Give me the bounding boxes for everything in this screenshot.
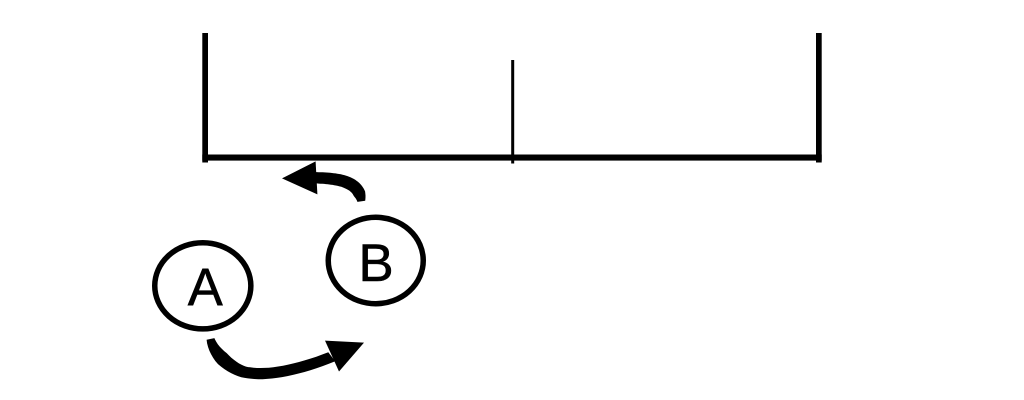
node: left end vertical bar bbox=[202, 33, 208, 163]
svg-text:A: A bbox=[188, 258, 224, 317]
node B: circle bbox=[328, 217, 423, 303]
node: right end vertical bar bbox=[816, 33, 822, 163]
node: center tick mark bbox=[511, 60, 514, 164]
arrow: curved arrow from B to baseline (points left) bbox=[282, 161, 366, 202]
arrow: curved arrow from A toward B (points right) bbox=[207, 338, 364, 379]
svg-text:B: B bbox=[358, 234, 393, 293]
node A: circle bbox=[155, 243, 251, 329]
wire: horizontal baseline bbox=[202, 155, 821, 161]
